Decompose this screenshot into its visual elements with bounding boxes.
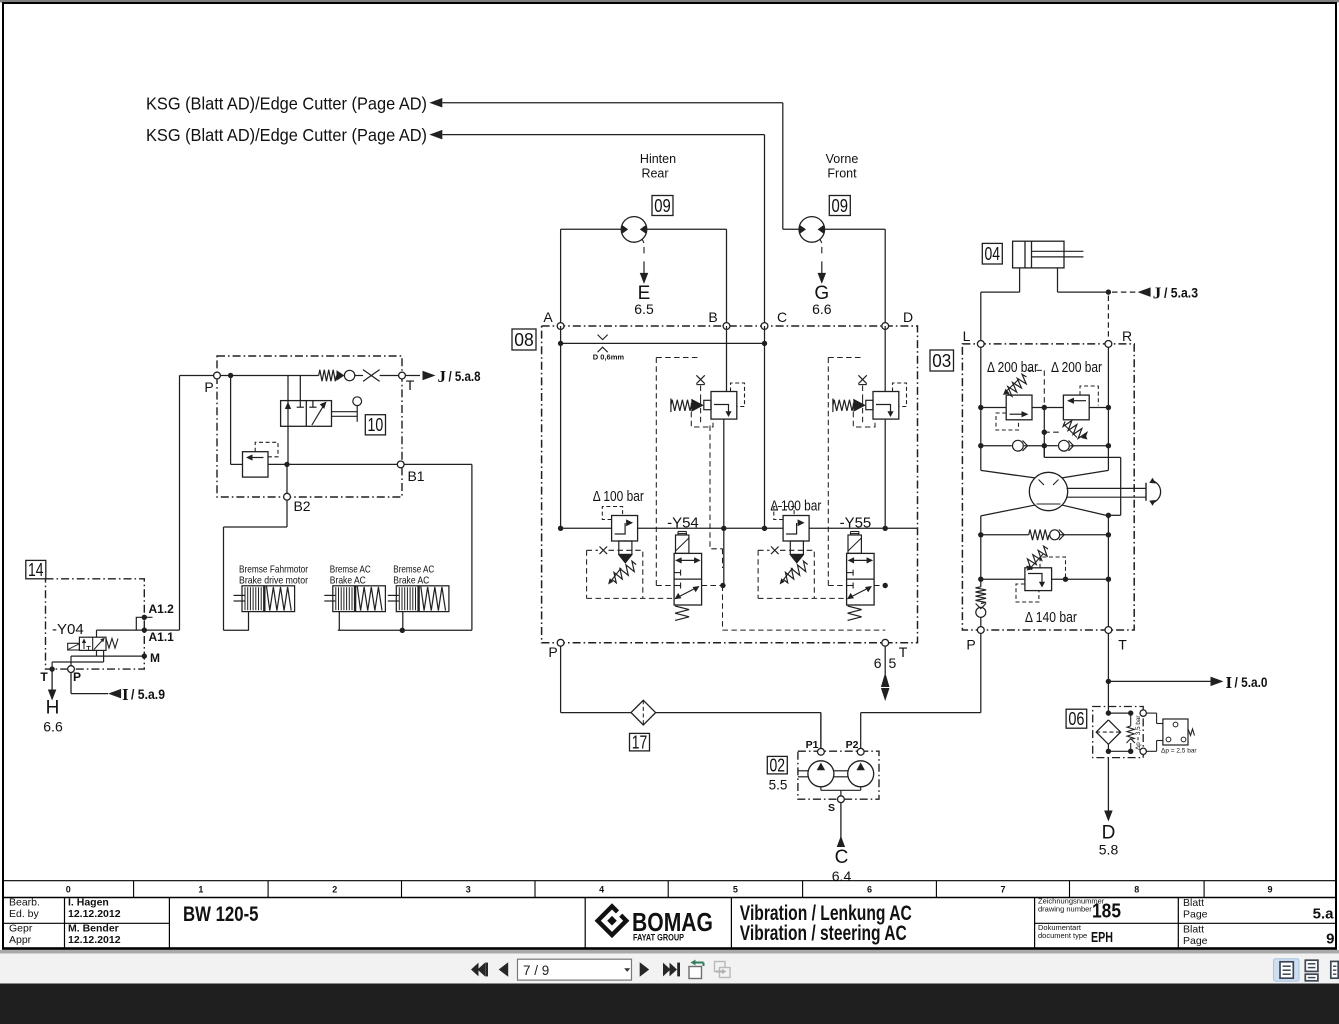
- svg-text:Vorne: Vorne: [826, 152, 859, 166]
- svg-text:Δ 200 bar: Δ 200 bar: [1051, 360, 1102, 376]
- svg-text:P1: P1: [806, 739, 819, 751]
- svg-text:Brake AC: Brake AC: [330, 575, 366, 587]
- svg-text:6: 6: [867, 884, 872, 894]
- svg-text:Page: Page: [1183, 909, 1208, 921]
- svg-text:3: 3: [466, 884, 471, 894]
- svg-text:5.8: 5.8: [1099, 842, 1119, 858]
- svg-text:I. Hagen: I. Hagen: [68, 897, 109, 909]
- svg-text:9: 9: [1268, 884, 1273, 894]
- svg-text:Blatt: Blatt: [1183, 924, 1204, 936]
- svg-text:A1.2: A1.2: [149, 602, 175, 616]
- svg-text:03: 03: [932, 351, 951, 371]
- svg-text:4: 4: [599, 884, 604, 894]
- svg-text:B1: B1: [407, 468, 424, 484]
- svg-text:Hinten: Hinten: [640, 152, 676, 166]
- svg-text:Bearb.: Bearb.: [9, 897, 40, 909]
- svg-text:Bremse AC: Bremse AC: [330, 563, 371, 575]
- svg-text:/ 5.a.3: / 5.a.3: [1164, 286, 1198, 301]
- svg-text:Δ 140 bar: Δ 140 bar: [1025, 610, 1077, 626]
- svg-text:P: P: [966, 637, 975, 653]
- svg-text:H: H: [46, 698, 60, 719]
- svg-text:Δ 100 bar: Δ 100 bar: [593, 489, 644, 505]
- svg-text:08: 08: [514, 330, 534, 350]
- svg-text:J: J: [438, 367, 447, 386]
- svg-text:B2: B2: [293, 498, 310, 514]
- svg-text:Bremse AC: Bremse AC: [393, 563, 434, 575]
- svg-text:document type: document type: [1038, 931, 1087, 940]
- svg-text:Gepr: Gepr: [9, 923, 33, 935]
- svg-text:5.a: 5.a: [1313, 906, 1335, 923]
- svg-text:12.12.2012: 12.12.2012: [68, 908, 121, 920]
- svg-text:S: S: [828, 802, 835, 814]
- svg-text:Ed. by: Ed. by: [9, 908, 40, 920]
- svg-text:Front: Front: [827, 167, 857, 181]
- svg-text:M. Bender: M. Bender: [68, 923, 119, 935]
- svg-text:6.6: 6.6: [812, 301, 832, 317]
- svg-text:A1.1: A1.1: [149, 630, 175, 644]
- svg-text:C: C: [835, 847, 849, 868]
- svg-text:/ 5.a.0: / 5.a.0: [1235, 675, 1268, 690]
- svg-text:7 / 9: 7 / 9: [523, 963, 549, 978]
- svg-text:/ 5.a.9: / 5.a.9: [131, 687, 165, 702]
- svg-text:D: D: [903, 309, 913, 325]
- svg-text:-Y55: -Y55: [840, 515, 872, 532]
- svg-text:6.5: 6.5: [634, 301, 654, 317]
- svg-text:BW 120-5: BW 120-5: [183, 903, 259, 926]
- svg-text:KSG (Blatt AD)/Edge Cutter (Pa: KSG (Blatt AD)/Edge Cutter (Page AD): [146, 94, 427, 114]
- svg-text:185: 185: [1092, 900, 1121, 923]
- svg-text:D 0,6mm: D 0,6mm: [593, 353, 625, 362]
- svg-text:09: 09: [832, 196, 849, 216]
- svg-text:Brake AC: Brake AC: [393, 575, 429, 587]
- svg-text:6.6: 6.6: [43, 719, 63, 735]
- svg-text:D: D: [1102, 823, 1116, 844]
- svg-text:Brake drive motor: Brake drive motor: [239, 575, 308, 587]
- svg-text:T: T: [899, 644, 908, 660]
- svg-text:Page: Page: [1183, 935, 1208, 947]
- svg-text:04: 04: [985, 244, 1001, 264]
- svg-text:9: 9: [1326, 931, 1334, 948]
- svg-text:14: 14: [28, 560, 44, 580]
- svg-text:-Y54: -Y54: [667, 515, 699, 532]
- svg-text:1: 1: [198, 884, 203, 894]
- svg-text:I: I: [122, 685, 129, 704]
- svg-text:-Y04: -Y04: [52, 621, 84, 638]
- svg-text:L: L: [963, 328, 971, 344]
- svg-text:02: 02: [770, 756, 786, 776]
- svg-text:6.4: 6.4: [832, 868, 852, 884]
- svg-text:5: 5: [889, 655, 897, 671]
- svg-text:EPH: EPH: [1091, 929, 1113, 946]
- svg-text:Δp = 2,5 bar: Δp = 2,5 bar: [1161, 747, 1197, 754]
- svg-text:7: 7: [1000, 884, 1005, 894]
- svg-text:B: B: [708, 309, 717, 325]
- svg-text:A: A: [543, 309, 553, 325]
- svg-text:P: P: [548, 644, 557, 660]
- svg-text:T: T: [1118, 637, 1127, 653]
- svg-text:P: P: [73, 670, 81, 684]
- svg-text:Δp = 3,5 bar: Δp = 3,5 bar: [1135, 716, 1142, 751]
- svg-text:FAYAT GROUP: FAYAT GROUP: [633, 933, 684, 943]
- svg-text:Vibration / steering AC: Vibration / steering AC: [740, 921, 907, 945]
- svg-text:Appr: Appr: [9, 934, 32, 946]
- svg-text:R: R: [1122, 328, 1132, 344]
- svg-text:10: 10: [368, 415, 384, 435]
- svg-text:5: 5: [733, 884, 738, 894]
- svg-text:06: 06: [1068, 709, 1084, 729]
- svg-text:M: M: [150, 651, 160, 665]
- svg-text:8: 8: [1134, 884, 1139, 894]
- svg-text:Blatt: Blatt: [1183, 897, 1204, 909]
- svg-text:Rear: Rear: [641, 167, 668, 181]
- svg-text:6: 6: [874, 655, 882, 671]
- svg-text:drawing number: drawing number: [1038, 905, 1092, 914]
- svg-text:T: T: [40, 670, 48, 684]
- svg-text:09: 09: [654, 196, 671, 216]
- svg-text:C: C: [777, 309, 787, 325]
- svg-text:Bremse Fahrmotor: Bremse Fahrmotor: [239, 563, 308, 575]
- svg-text:Δ 200 bar: Δ 200 bar: [987, 360, 1038, 376]
- svg-text:T: T: [406, 377, 415, 393]
- svg-text:J: J: [1153, 284, 1162, 303]
- svg-text:0: 0: [66, 884, 71, 894]
- svg-text:17: 17: [632, 733, 648, 753]
- svg-text:I: I: [1226, 673, 1233, 692]
- svg-text:12.12.2012: 12.12.2012: [68, 934, 121, 946]
- svg-text:P2: P2: [846, 739, 859, 751]
- svg-text:5.5: 5.5: [769, 778, 788, 793]
- svg-text:2: 2: [332, 884, 337, 894]
- svg-text:P: P: [204, 379, 213, 395]
- svg-text:KSG (Blatt AD)/Edge Cutter (Pa: KSG (Blatt AD)/Edge Cutter (Page AD): [146, 125, 427, 145]
- svg-text:/ 5.a.8: / 5.a.8: [449, 369, 481, 384]
